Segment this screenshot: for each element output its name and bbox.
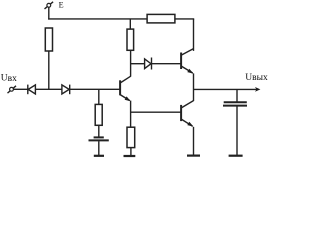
wire VT3 emitter to ground xyxy=(193,127,195,155)
wire R5 right lead xyxy=(175,18,194,20)
terminal input circle xyxy=(10,87,14,91)
svg-text:Uвых: Uвых xyxy=(245,73,268,83)
ground under VT3 xyxy=(187,155,200,157)
output arrowhead xyxy=(255,87,260,92)
diode VD2 xyxy=(62,85,70,95)
svg-text:E: E xyxy=(59,1,64,10)
wire VD3 to VT2 base xyxy=(152,63,182,65)
resistor R2 xyxy=(127,29,134,50)
resistor R3 xyxy=(95,104,102,125)
transistor VT3 xyxy=(181,101,193,127)
wire output xyxy=(194,88,257,90)
wire VT1 emitter to VT3 base xyxy=(131,111,181,113)
ground under R4 xyxy=(124,155,136,157)
capacitor C1 top plate xyxy=(94,136,104,138)
capacitor C2 top plate xyxy=(224,101,247,103)
wire C2 to ground xyxy=(236,106,238,155)
wire VD2 to VT1 base xyxy=(70,88,120,90)
capacitor C2 bottom plate xyxy=(223,105,247,107)
wire VD1 to VD2 xyxy=(35,88,62,90)
diode VD1 xyxy=(28,85,36,95)
resistor R5 xyxy=(147,14,175,23)
wire C2 top lead xyxy=(236,89,238,102)
transistor VT1 xyxy=(120,76,131,101)
wire R2 top lead xyxy=(129,19,131,29)
wire R3 top lead xyxy=(98,89,100,104)
wire C1 to ground xyxy=(98,141,100,155)
wire E terminal drop xyxy=(48,7,50,19)
ground under C1 xyxy=(94,155,104,157)
wire R4 bottom lead xyxy=(130,148,132,156)
svg-text:Uвх: Uвх xyxy=(1,74,17,84)
terminal E circle xyxy=(47,3,51,7)
wire VT1 collector up xyxy=(130,50,132,76)
wire VT1 collector to VD3 xyxy=(131,63,145,65)
wire right drop to VT2 collector xyxy=(193,19,195,51)
wire input to VD1 xyxy=(13,88,27,90)
resistor R1 xyxy=(45,28,52,51)
capacitor C1 bottom plate xyxy=(89,139,109,141)
wire VT1 emitter down xyxy=(130,101,132,128)
resistor R4 xyxy=(127,127,135,147)
wire R3 to C1 xyxy=(98,125,100,137)
diode VD3 xyxy=(145,58,152,70)
terminal E slash xyxy=(45,2,54,9)
ground under C2 xyxy=(229,155,243,157)
transistor VT2 xyxy=(181,49,193,74)
terminal input slash xyxy=(8,86,17,93)
wire VT2 emitter rail down xyxy=(193,73,195,101)
wire top rail xyxy=(48,18,147,20)
wire R1 bottom lead xyxy=(48,51,50,89)
